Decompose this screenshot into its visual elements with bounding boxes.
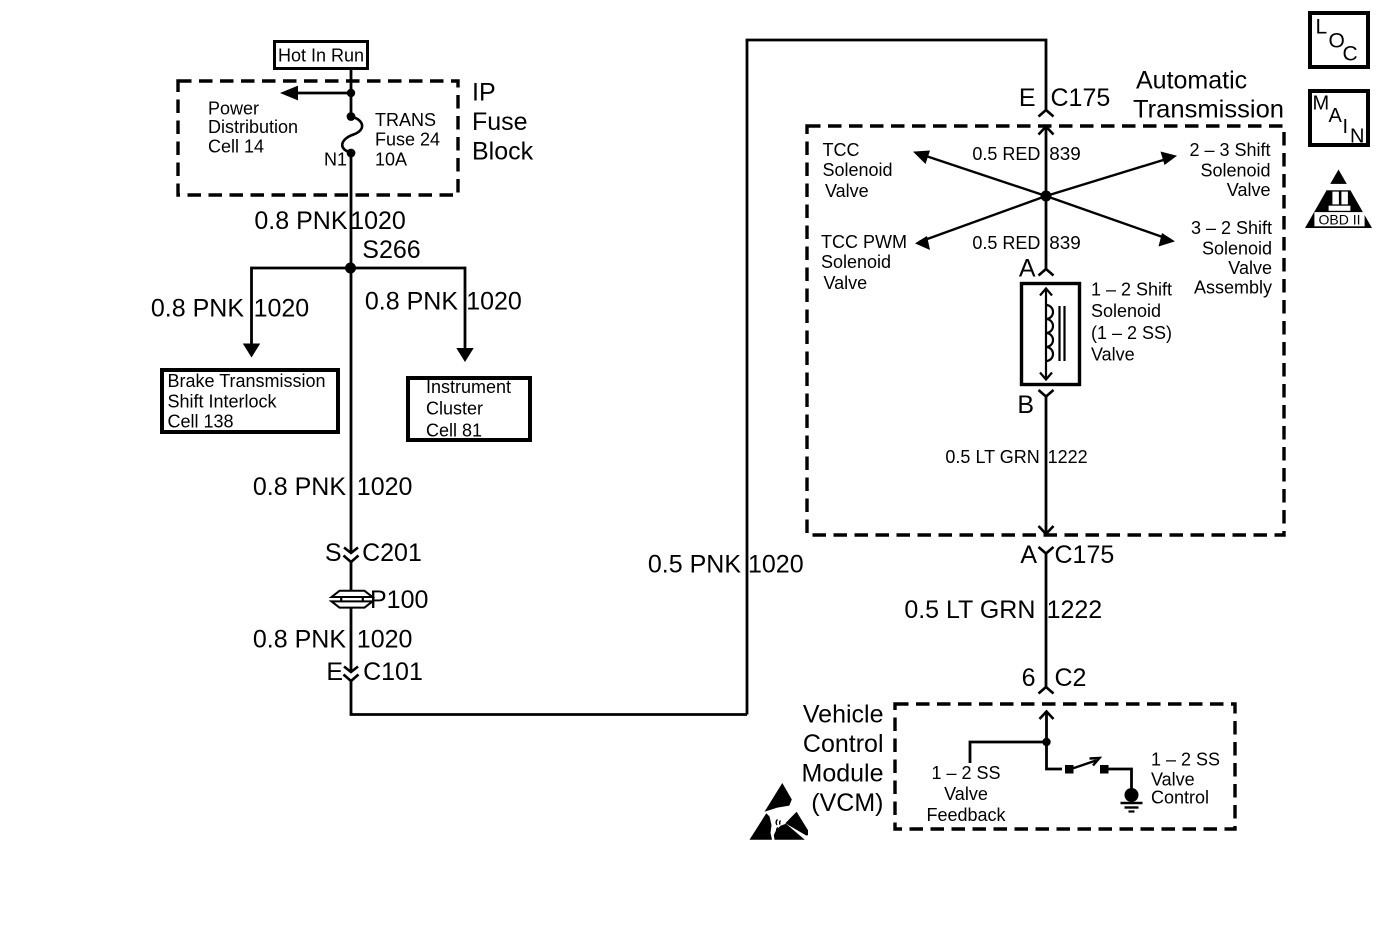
wire label 0.8 PNK 1020 (left branch) [151, 294, 309, 322]
svg-text:S266: S266 [362, 236, 420, 264]
svg-text:Cluster: Cluster [426, 399, 483, 419]
wire: C201 to grommet P100 [350, 562, 353, 591]
wire: feed to Power Distribution (arrow left) [280, 86, 351, 101]
svg-text:1222: 1222 [1048, 447, 1088, 467]
connector C101 pin E [326, 658, 423, 686]
svg-text:0.8 PNK: 0.8 PNK [253, 473, 346, 501]
connector C201 pin S [325, 539, 422, 567]
connector C175 pin E [1019, 84, 1110, 117]
svg-text:N1: N1 [324, 150, 347, 170]
svg-text:Valve: Valve [825, 181, 869, 201]
svg-text:TRANS: TRANS [375, 110, 436, 130]
svg-text:Cell 14: Cell 14 [208, 136, 264, 156]
wire: across the top to C175 [746, 40, 1046, 110]
wire: S266 down to connector C201 [350, 268, 353, 552]
svg-text:Solenoid: Solenoid [1202, 238, 1272, 258]
locator symbol MAIN [1310, 91, 1368, 148]
svg-text:0.8 PNK: 0.8 PNK [254, 207, 347, 235]
svg-text:(1 – 2 SS): (1 – 2 SS) [1091, 323, 1172, 343]
svg-text:C175: C175 [1051, 84, 1111, 112]
svg-text:Brake Transmission: Brake Transmission [168, 371, 326, 391]
label Automatic Transmission [1133, 66, 1284, 123]
label 1-2 SS Valve Control [1151, 750, 1220, 808]
wire: feed to 3-2 Shift Solenoid Valve (arrow down-right) [1046, 196, 1175, 247]
svg-text:Vehicle: Vehicle [803, 700, 884, 728]
svg-text:1 – 2 SS: 1 – 2 SS [931, 763, 1000, 783]
svg-text:1020: 1020 [466, 287, 522, 315]
wire: C175-E into transmission (arrow up) [1039, 126, 1054, 196]
wire: branch to Instrument Cluster (arrow down) [456, 267, 473, 362]
block Brake Transmission Shift Interlock Cell 138 [162, 370, 338, 432]
svg-text:1020: 1020 [350, 207, 406, 235]
svg-text:839: 839 [1049, 144, 1081, 164]
svg-text:Module: Module [802, 759, 884, 787]
block Instrument Cluster Cell 81 [408, 377, 530, 441]
svg-text:1020: 1020 [748, 551, 804, 579]
wire label 0.8 PNK 1020 [254, 207, 405, 235]
svg-text:2 – 3 Shift: 2 – 3 Shift [1189, 140, 1270, 160]
locator symbol LOC [1310, 13, 1368, 67]
svg-text:S: S [325, 539, 342, 567]
svg-text:C101: C101 [363, 658, 423, 686]
svg-text:Valve: Valve [1091, 344, 1135, 364]
label 1-2 Shift Solenoid (1-2 SS) Valve [1091, 280, 1172, 365]
svg-text:C201: C201 [362, 539, 422, 567]
wire: feed to TCC PWM Solenoid Valve (arrow down-left) [915, 196, 1046, 250]
svg-text:0.5 LT GRN: 0.5 LT GRN [904, 596, 1035, 624]
svg-text:1020: 1020 [254, 294, 310, 322]
svg-text:OBD II: OBD II [1318, 211, 1360, 227]
wire label 0.5 LT GRN 1222 (inside transmission) [945, 447, 1087, 467]
svg-text:6: 6 [1022, 664, 1036, 692]
svg-text:Valve: Valve [1227, 180, 1271, 200]
svg-text:10A: 10A [375, 149, 407, 169]
wire: S266 branch bus [252, 267, 466, 270]
label 1-2 SS Valve Feedback [926, 763, 1006, 825]
svg-text:1 – 2 SS: 1 – 2 SS [1151, 750, 1220, 770]
label Hot In Run [275, 42, 368, 69]
ESD sensitive device symbol [750, 783, 809, 840]
node: fuse feed junction [347, 89, 355, 97]
svg-text:Distribution: Distribution [208, 117, 298, 137]
svg-text:E: E [326, 658, 343, 686]
svg-text:M: M [1313, 92, 1330, 114]
svg-text:3 – 2 Shift: 3 – 2 Shift [1191, 218, 1272, 238]
svg-text:Feedback: Feedback [926, 805, 1006, 825]
svg-text:Control: Control [803, 730, 884, 758]
svg-text:Control: Control [1151, 787, 1209, 807]
svg-text:0.5 RED: 0.5 RED [972, 144, 1040, 164]
svg-text:A: A [1329, 105, 1343, 127]
label 3-2 Shift Solenoid Valve Assembly [1191, 218, 1272, 297]
switch (1-2 SS valve driver, shown open) [1065, 758, 1109, 774]
wire label 0.5 RED 839 (upper) [972, 144, 1080, 164]
wire: fuse to splice S266 [350, 153, 353, 268]
solenoid coil 1-2 Shift Solenoid (1-2 SS) Valve [1022, 284, 1080, 385]
svg-text:I: I [1343, 116, 1349, 138]
svg-text:0.8 PNK: 0.8 PNK [253, 626, 346, 654]
wire: P100 to connector C101 [350, 607, 353, 671]
wire label 0.5 RED 839 (lower) [972, 233, 1080, 253]
svg-text:TCC: TCC [823, 140, 860, 160]
wire: C175-A down to C2 [1045, 554, 1048, 688]
OBD II symbol [1305, 170, 1372, 229]
wire: solenoid pin B down to C175-A (arrow down) [1039, 397, 1054, 535]
svg-text:C175: C175 [1055, 541, 1115, 569]
svg-text:0.8 PNK: 0.8 PNK [365, 287, 458, 315]
svg-text:Solenoid: Solenoid [1091, 301, 1161, 321]
wire: C2 pin 6 into VCM (arrow up) [1040, 711, 1054, 742]
wire: riser up the page [746, 40, 749, 715]
label IP Fuse Block [472, 78, 534, 165]
svg-text:N: N [1350, 126, 1364, 148]
wire label 0.8 PNK 1020 (right branch) [365, 287, 522, 315]
svg-text:Assembly: Assembly [1194, 277, 1272, 297]
label Power Distribution Cell 14 [208, 99, 298, 157]
svg-text:839: 839 [1049, 233, 1081, 253]
svg-text:L: L [1316, 15, 1328, 38]
svg-text:Cell 138: Cell 138 [168, 412, 234, 432]
svg-text:Automatic: Automatic [1136, 66, 1247, 94]
svg-text:Valve: Valve [1228, 258, 1272, 278]
svg-text:Instrument: Instrument [426, 377, 511, 397]
wire: switch to ground [1108, 769, 1132, 789]
svg-text:0.5 LT GRN: 0.5 LT GRN [945, 447, 1039, 467]
svg-text:Fuse 24: Fuse 24 [375, 130, 440, 150]
svg-text:E: E [1019, 84, 1036, 112]
label TCC Solenoid Valve [823, 140, 893, 201]
wire label 0.8 PNK 1020 [253, 626, 413, 654]
svg-text:P100: P100 [370, 586, 428, 614]
label TCC PWM Solenoid Valve [821, 232, 907, 293]
connector C2 pin 6 [1022, 664, 1087, 694]
svg-text:0.5 RED: 0.5 RED [972, 233, 1040, 253]
svg-text:Block: Block [472, 138, 534, 166]
svg-text:(VCM): (VCM) [811, 789, 883, 817]
svg-text:0.5 PNK: 0.5 PNK [648, 551, 741, 579]
pin A of 1-2 shift solenoid [1019, 255, 1054, 283]
svg-text:TCC PWM: TCC PWM [821, 232, 907, 252]
node: VCM sense junction [1042, 738, 1050, 746]
wire: feed to TCC Solenoid Valve (arrow up-left) [913, 151, 1046, 197]
value label TRANS Fuse 24 10A [375, 110, 440, 170]
svg-text:1020: 1020 [357, 473, 413, 501]
svg-text:Power: Power [208, 99, 259, 119]
wire: branch to Brake Transmission Shift Interlock (arrow down) [243, 267, 260, 358]
svg-text:C: C [1343, 42, 1358, 65]
svg-text:Solenoid: Solenoid [1200, 161, 1270, 181]
svg-text:1222: 1222 [1047, 596, 1103, 624]
svg-text:0.8 PNK: 0.8 PNK [151, 294, 244, 322]
svg-text:Valve: Valve [824, 273, 868, 293]
svg-text:Hot In Run: Hot In Run [278, 46, 364, 66]
wire label 0.8 PNK 1020 [253, 473, 413, 501]
wire: junction down to 1-2 shift solenoid pin A [1045, 196, 1048, 269]
label 2-3 Shift Solenoid Valve [1189, 140, 1270, 200]
svg-text:Solenoid: Solenoid [821, 252, 891, 272]
svg-text:B: B [1017, 391, 1034, 419]
svg-text:Shift Interlock: Shift Interlock [168, 391, 278, 411]
pin B of 1-2 shift solenoid [1017, 390, 1053, 419]
label Vehicle Control Module (VCM) [802, 700, 884, 817]
wire label 0.5 PNK 1020 [648, 551, 804, 579]
svg-text:Solenoid: Solenoid [823, 160, 893, 180]
svg-text:Fuse: Fuse [472, 108, 528, 136]
automatic transmission boundary (dashed) [807, 126, 1284, 535]
grommet P100 [332, 586, 429, 614]
node: solenoid feed junction [1041, 191, 1052, 202]
svg-text:1020: 1020 [357, 626, 413, 654]
splice S266 [345, 236, 421, 274]
svg-text:Cell 81: Cell 81 [426, 421, 482, 441]
IP fuse block boundary (dashed) [178, 81, 458, 195]
wire label 0.5 LT GRN 1222 [904, 596, 1102, 624]
svg-text:A: A [1019, 255, 1036, 283]
svg-text:IP: IP [472, 78, 496, 106]
wire: Hot In Run to fuse F24 [350, 69, 353, 117]
wire: feed to 2-3 Shift Solenoid Valve (arrow up-right) [1046, 152, 1177, 197]
svg-text:A: A [1020, 541, 1037, 569]
svg-text:1 – 2 Shift: 1 – 2 Shift [1091, 280, 1172, 300]
wire: C101 down and right to riser [351, 681, 747, 715]
ground (chassis) [1121, 788, 1143, 812]
fuse F24 (TRANS Fuse 24 10A) [342, 112, 362, 157]
svg-text:C2: C2 [1055, 664, 1087, 692]
svg-text:Transmission: Transmission [1133, 95, 1284, 123]
wire: junction to 1-2 SS Valve Feedback stub [970, 742, 1047, 763]
connector C175 pin A [1020, 541, 1114, 569]
wire: junction down to switch [1047, 742, 1063, 769]
vehicle control module boundary (dashed) [895, 704, 1235, 829]
svg-text:Valve: Valve [944, 784, 988, 804]
